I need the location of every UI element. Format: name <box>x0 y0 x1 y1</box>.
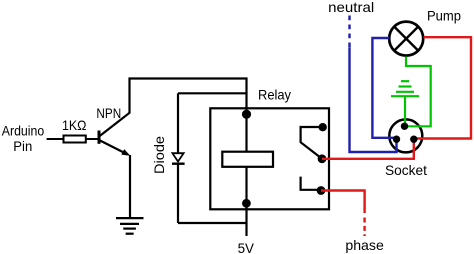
wire diode top <box>178 92 247 94</box>
relay switch arm <box>301 127 323 159</box>
svg-text:Pump: Pump <box>427 9 461 24</box>
transistor Q1 NPN <box>96 106 130 156</box>
svg-text:5V: 5V <box>238 241 255 254</box>
junction dot coil bottom <box>242 199 251 208</box>
socket circle <box>389 119 422 152</box>
relay NO contact dot <box>317 186 326 195</box>
wire relay coil to 5V <box>245 167 247 236</box>
resistor R1 1KΩ <box>62 118 87 143</box>
svg-text:Diode: Diode <box>152 136 167 174</box>
svg-text:Socket: Socket <box>385 163 427 178</box>
wire pump to socket earth pin (green) <box>405 57 431 127</box>
socket pin phase (right) <box>410 136 417 143</box>
relay coil <box>222 152 273 167</box>
relay common contact dot <box>318 154 327 163</box>
socket pin earth (top) <box>401 123 408 130</box>
diode D1 <box>152 93 185 223</box>
earth symbol (green) <box>391 81 419 126</box>
junction dot coil top <box>242 110 251 119</box>
relay switch NO bracket <box>301 177 321 190</box>
svg-text:NPN: NPN <box>96 106 121 121</box>
wire diode bottom <box>178 222 247 224</box>
relay contact NC dot <box>319 123 327 131</box>
pump lamp symbol <box>389 22 423 56</box>
wire emitter to ground <box>129 155 131 217</box>
svg-text:Arduino: Arduino <box>2 124 45 139</box>
label Arduino Pin <box>2 124 45 155</box>
neutral wire (blue) <box>350 16 397 153</box>
wire arduino pin to resistor <box>47 138 64 140</box>
svg-text:Relay: Relay <box>258 88 291 103</box>
svg-text:Pin: Pin <box>13 139 32 154</box>
wire relay NO contact to phase (red) <box>321 191 365 237</box>
wire collector to relay coil top <box>130 79 247 152</box>
svg-text:neutral: neutral <box>328 0 374 15</box>
wire relay common to socket right pin (red) <box>322 139 414 159</box>
relay box <box>210 88 329 210</box>
ground <box>116 218 144 234</box>
svg-text:1KΩ: 1KΩ <box>62 118 87 133</box>
wire pump to socket right pin (red) <box>414 37 471 138</box>
wire resistor to transistor base <box>86 138 99 140</box>
socket pin neutral (left) <box>393 136 400 143</box>
wire pump to socket left pin (blue) <box>372 38 396 138</box>
svg-text:phase: phase <box>345 238 384 253</box>
